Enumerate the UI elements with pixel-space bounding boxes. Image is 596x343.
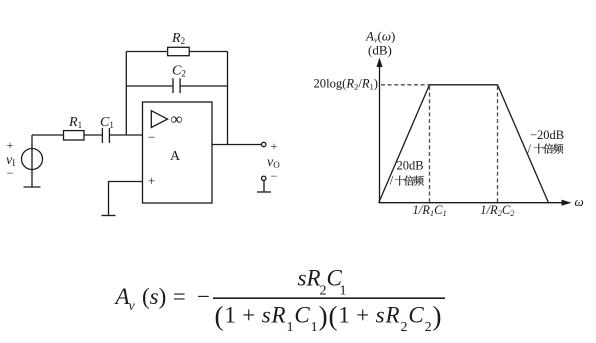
svg-text:ω: ω [575,194,584,209]
svg-text:+: + [7,138,14,152]
svg-text:sR: sR [298,266,321,291]
svg-text:1: 1 [340,284,347,299]
svg-text:A: A [170,149,181,164]
svg-text:+: + [148,173,155,188]
svg-text:=: = [173,284,186,309]
svg-text:∞: ∞ [171,109,183,128]
svg-text:/: / [528,142,532,156]
svg-text:20dB: 20dB [397,159,424,173]
svg-text:−: − [148,130,155,145]
svg-text:v: v [129,299,136,314]
svg-text:20log(R2/R1): 20log(R2/R1) [314,76,379,91]
svg-text:−: − [271,169,278,183]
svg-text:−: − [197,284,210,309]
svg-text:2: 2 [320,284,327,299]
svg-text:+: + [271,139,278,153]
svg-text:(s): (s) [142,284,166,309]
svg-text:−20dB: −20dB [530,128,564,142]
svg-text:1/R1C1: 1/R1C1 [413,203,447,218]
svg-text:−: − [7,166,14,180]
svg-text:/: / [390,174,394,188]
svg-text:(dB): (dB) [368,43,392,58]
